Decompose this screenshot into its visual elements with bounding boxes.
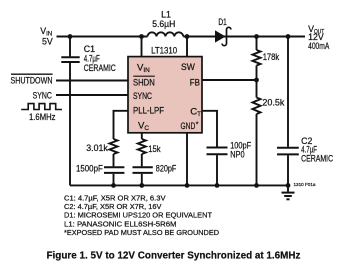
wire bottom ground rail [70,184,288,186]
node FB divider [254,78,259,83]
svg-text:CERAMIC: CERAMIC [301,154,334,164]
node rail ground [286,183,291,188]
wire 178k top [256,37,258,51]
label C1 value [84,44,117,73]
svg-text:GND: GND [181,121,196,132]
SYNC squarewave symbol [21,104,62,110]
svg-text:SW: SW [181,62,196,73]
wire 178k to FB node [256,66,258,81]
svg-text:3.01k: 3.01k [86,143,108,153]
svg-text:820pF: 820pF [156,163,177,173]
pin SHDN overline [133,75,155,77]
resistor R 15k [138,139,146,154]
wire SYNC [56,94,128,96]
svg-text:LT1310: LT1310 [151,45,177,55]
wire GND pin drop [186,133,188,186]
svg-text:FB: FB [190,77,200,88]
label VOUT [308,24,329,51]
junction node dots [68,34,291,188]
svg-text:C1: C1 [84,44,95,54]
svg-text:5V: 5V [42,36,53,46]
resistor R 3.01k [110,139,118,154]
wire top rail right [183,36,305,38]
node rail GND pin [185,183,190,188]
svg-text:D1: D1 [218,17,226,27]
svg-text:L1: L1 [161,9,171,19]
svg-text:20.5k: 20.5k [262,97,285,107]
node rail 20.5k [254,183,259,188]
capacitor C1 [61,37,79,186]
IC U1 LT1310 body [128,57,202,133]
wire FB [202,79,257,81]
node rail 820pF [139,183,144,188]
inductor L1 [148,32,184,36]
svg-text:1310 F01a: 1310 F01a [294,182,316,187]
svg-text:1500pF: 1500pF [76,163,103,173]
node VIN/C1 [68,34,73,39]
node rail 1500pF [111,183,116,188]
svg-text:SYNC: SYNC [33,90,53,100]
wire SW pin drop [186,37,188,58]
svg-text:NP0: NP0 [230,150,244,160]
node SW pin [185,34,190,39]
capacitor 100pF [207,148,228,186]
svg-text:SHDN: SHDN [133,77,155,88]
wire CT [202,111,217,147]
wire 20.5k to rail [256,114,258,185]
IC pin labels [133,62,201,132]
wire 15k to 820pF [141,154,143,166]
label C2 value [301,136,334,164]
wire SHDN [56,80,128,82]
wire PLL-LPF [114,111,129,139]
capacitor 820pF [133,167,153,185]
wire top rail left [57,36,148,38]
svg-text:4.7µF: 4.7µF [84,54,100,64]
diode D1 [216,27,231,45]
resistor R 20.5k [253,98,261,115]
SHUTDOWN overline [11,73,53,75]
svg-text:PLL-LPF: PLL-LPF [133,106,164,117]
svg-text:*: * [196,122,199,129]
label 100pF NP0 [230,140,252,159]
capacitor 1500pF [104,167,124,185]
svg-text:178k: 178k [263,52,280,62]
label VIN source [40,26,53,46]
svg-text:1.6MHz: 1.6MHz [29,112,56,122]
wire FB node to 20.5k [256,80,258,98]
label L1 value [152,9,175,29]
svg-text:5.6µH: 5.6µH [152,19,175,29]
node VIN pin [139,34,144,39]
wire VIN pin drop [141,37,143,58]
node rail 100pF [215,183,220,188]
wire 3.01k to 1500pF [113,154,115,166]
resistor R 178k [253,50,261,65]
svg-text:Figure 1. 5V to 12V Converter: Figure 1. 5V to 12V Converter Synchroniz… [47,250,301,262]
svg-text:SHUTDOWN: SHUTDOWN [11,76,53,86]
svg-text:*EXPOSED PAD MUST ALSO BE GROU: *EXPOSED PAD MUST ALSO BE GROUNDED [64,228,219,237]
wire VC pin drop [141,133,143,139]
node 178k top [254,34,259,39]
svg-text:15k: 15k [148,144,161,154]
svg-text:CERAMIC: CERAMIC [84,63,117,73]
svg-text:400mA: 400mA [308,41,329,51]
notes block [64,194,219,237]
svg-text:SYNC: SYNC [133,91,152,102]
capacitor C2 [277,37,299,186]
node C2 top [286,34,291,39]
ground symbol [282,185,295,199]
